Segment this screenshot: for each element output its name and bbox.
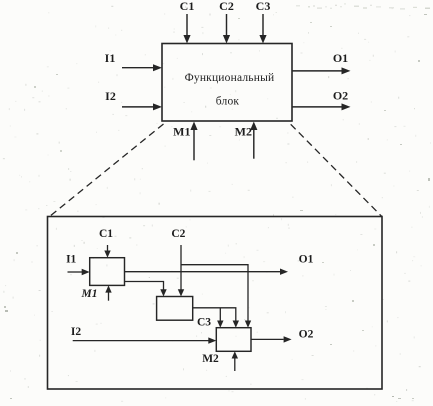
svg-text:C2: C2 — [219, 0, 234, 13]
svg-text:I1: I1 — [66, 254, 76, 266]
wire I2 line into block C left — [73, 337, 217, 343]
label M1 (inner, italic) — [81, 288, 98, 300]
wire M1 arrow up into block A bottom — [105, 285, 111, 300]
label O2 (right) — [333, 89, 348, 103]
block B (middle inner box) — [157, 297, 193, 321]
wire dashed decomposition line left — [50, 124, 164, 217]
svg-text:M1: M1 — [81, 288, 98, 300]
wire C1 arrow into top of block — [183, 14, 190, 44]
label M1 (below block) — [173, 125, 190, 139]
svg-text:Функциональный: Функциональный — [185, 72, 275, 84]
wire I1 arrow into block A left — [68, 269, 90, 275]
block C (third inner box) — [216, 328, 251, 352]
svg-text:O2: O2 — [333, 89, 348, 103]
svg-text:I2: I2 — [71, 326, 81, 338]
svg-text:M2: M2 — [235, 125, 252, 139]
label I2 (inner) — [71, 326, 81, 338]
label I1 (top-left) — [105, 51, 116, 65]
label C2 (top) — [219, 0, 234, 13]
label C1 (inner) — [99, 228, 113, 240]
label O2 (inner) — [299, 329, 314, 341]
svg-text:I1: I1 — [105, 51, 116, 65]
svg-text:C2: C2 — [171, 228, 185, 240]
wire block A output elbow down into block B — [125, 282, 167, 297]
svg-text:O1: O1 — [299, 254, 314, 266]
label C1 (top) — [180, 0, 195, 13]
wire block A output to O1 — [125, 269, 289, 275]
wire M2 arrow up into bottom of block — [250, 122, 257, 159]
wire C2 line down into block B — [178, 245, 184, 297]
svg-text:M2: M2 — [202, 353, 219, 365]
label M2 (inner) — [202, 353, 219, 365]
wire C2 branch over to block C — [181, 265, 251, 328]
functional block box — [162, 44, 292, 122]
wire M1 arrow up into bottom of block — [190, 122, 197, 161]
svg-text:C3: C3 — [256, 0, 271, 13]
svg-text:O2: O2 — [299, 329, 314, 341]
wire block C output to O2 — [251, 336, 292, 342]
label M2 (below block) — [235, 125, 252, 139]
svg-text:C1: C1 — [180, 0, 195, 13]
label I2 (left) — [105, 89, 116, 103]
wire O1 arrow out of right of block — [292, 67, 351, 74]
svg-text:I2: I2 — [105, 89, 116, 103]
label C3 (top) — [256, 0, 271, 13]
wire C1 arrow into block A top — [104, 245, 110, 258]
wire C2 arrow into top of block — [223, 14, 230, 44]
wire C3 arrow into top of block — [259, 14, 266, 44]
svg-text:C3: C3 — [197, 317, 211, 329]
svg-text:O1: O1 — [333, 51, 348, 65]
svg-text:C1: C1 — [99, 228, 113, 240]
label C2 (inner) — [171, 228, 185, 240]
wire block B output to block C (two branches) — [193, 308, 239, 328]
svg-text:M1: M1 — [173, 125, 190, 139]
wire I1 arrow into left of block — [122, 64, 162, 71]
wire O2 arrow out of right of block — [292, 103, 351, 110]
label I1 (inner) — [66, 254, 76, 266]
block A (first inner box) — [90, 258, 125, 286]
wire dashed decomposition line right — [291, 124, 382, 216]
decomposition boundary rectangle — [48, 217, 383, 390]
svg-text:блок: блок — [216, 96, 240, 108]
label O1 (right) — [333, 51, 348, 65]
label O1 (inner) — [299, 254, 314, 266]
label C3 (inner) — [197, 317, 211, 329]
wire I2 arrow into left of block — [122, 103, 162, 110]
wire M2 arrow up into block C bottom — [232, 351, 238, 371]
